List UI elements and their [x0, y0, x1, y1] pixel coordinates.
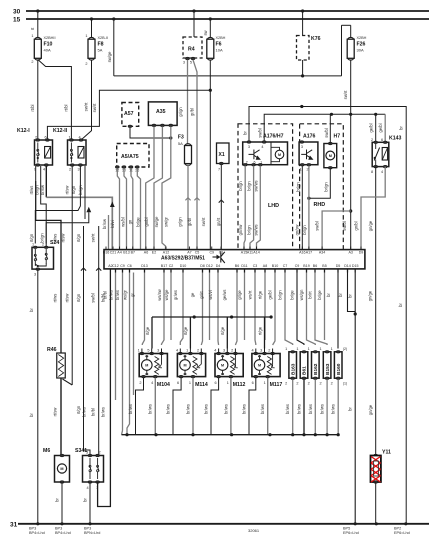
svg-text:br: br [348, 294, 353, 298]
svg-text:sw/ge: sw/ge [154, 216, 159, 228]
svg-text:LHD: LHD [268, 203, 279, 209]
svg-text:A14: A14 [253, 250, 259, 254]
svg-text:32061: 32061 [248, 528, 260, 533]
svg-text:(2): (2) [343, 347, 347, 351]
svg-text:br/gn: br/gn [78, 185, 83, 195]
svg-text:gr: gr [130, 293, 135, 297]
svg-text:6: 6 [177, 381, 179, 385]
svg-text:B17: B17 [161, 264, 167, 268]
svg-text:br/ws: br/ws [109, 290, 114, 300]
svg-text:ws/gn: ws/gn [299, 289, 304, 301]
svg-text:1: 1 [31, 34, 33, 38]
svg-text:15: 15 [13, 17, 21, 24]
svg-text:M: M [258, 364, 261, 368]
svg-text:br/ws: br/ws [204, 404, 209, 414]
svg-text:sw/rt: sw/rt [343, 90, 348, 100]
svg-text:2: 2 [371, 138, 373, 142]
svg-text:br/gn: br/gn [246, 181, 251, 191]
svg-text:sw/rt: sw/rt [92, 103, 97, 113]
svg-text:7: 7 [218, 168, 220, 172]
svg-text:2: 2 [331, 382, 333, 386]
svg-text:A17: A17 [306, 250, 312, 254]
svg-text:rt/gn: rt/gn [71, 185, 76, 194]
svg-text:2: 2 [246, 160, 248, 164]
svg-text:A63/S292/B37/M51: A63/S292/B37/M51 [161, 255, 205, 261]
svg-text:4: 4 [87, 486, 89, 490]
svg-text:4: 4 [151, 381, 153, 385]
svg-text:B61: B61 [302, 366, 308, 375]
svg-text:X2BHII: X2BHII [44, 36, 56, 40]
svg-text:rt/gn: rt/gn [76, 233, 81, 242]
svg-text:K12-I: K12-I [17, 128, 30, 134]
svg-text:bl/vi: bl/vi [110, 220, 115, 227]
svg-text:2: 2 [139, 381, 141, 385]
svg-text:A16: A16 [299, 250, 305, 254]
svg-text:D9: D9 [359, 250, 364, 254]
svg-text:H7: H7 [334, 134, 341, 140]
svg-text:1: 1 [85, 34, 87, 38]
svg-text:RHD: RHD [314, 202, 326, 208]
svg-text:1: 1 [260, 160, 262, 164]
svg-text:A12: A12 [163, 250, 169, 254]
svg-text:31: 31 [10, 522, 18, 529]
svg-text:K12-II: K12-II [53, 128, 68, 134]
svg-text:A176/H7: A176/H7 [263, 134, 284, 140]
svg-text:B6: B6 [235, 264, 239, 268]
svg-text:sw/bl: sw/bl [258, 128, 263, 138]
svg-text:br/ws: br/ws [331, 404, 336, 414]
svg-text:BP4=Lhd: BP4=Lhd [29, 531, 45, 535]
svg-text:E2: E2 [152, 250, 156, 254]
svg-text:gn/bl: gn/bl [354, 221, 359, 230]
svg-text:br: br [399, 126, 404, 130]
svg-text:rt/gn: rt/gn [76, 293, 81, 302]
svg-text:rt/ge: rt/ge [220, 326, 225, 335]
svg-text:3: 3 [301, 145, 303, 149]
svg-text:sw/ws: sw/ws [254, 180, 259, 191]
svg-text:6: 6 [214, 381, 216, 385]
svg-text:br/ws: br/ws [320, 404, 325, 414]
svg-text:ge: ge [190, 292, 195, 297]
svg-text:30: 30 [13, 9, 21, 16]
svg-text:br: br [83, 498, 88, 502]
svg-text:sw/rt: sw/rt [84, 102, 89, 112]
svg-text:br/ws: br/ws [166, 404, 171, 414]
svg-text:5: 5 [147, 349, 149, 353]
svg-text:4: 4 [43, 168, 45, 172]
svg-text:X2BH: X2BH [216, 36, 226, 40]
svg-text:br/ws: br/ws [186, 404, 191, 414]
svg-text:gn/ge: gn/ge [368, 220, 373, 231]
svg-text:D8: D8 [200, 264, 205, 268]
svg-text:1: 1 [308, 347, 310, 351]
svg-text:sw/gr: sw/gr [164, 216, 169, 227]
svg-text:C3: C3 [253, 264, 258, 268]
svg-text:sw/ge: sw/ge [107, 51, 112, 63]
svg-text:br/ws: br/ws [297, 404, 302, 414]
svg-text:5: 5 [190, 61, 192, 65]
svg-text:3: 3 [183, 61, 185, 65]
svg-text:ge/bl: ge/bl [268, 290, 273, 299]
svg-text:3: 3 [78, 168, 80, 172]
svg-text:ws/sw: ws/sw [157, 289, 162, 300]
svg-text:rt/bl: rt/bl [30, 104, 35, 111]
svg-text:EP6=Lhd: EP6=Lhd [394, 531, 410, 535]
svg-text:gr/bl: gr/bl [187, 218, 192, 226]
svg-text:2: 2 [268, 349, 270, 353]
svg-text:1: 1 [319, 347, 321, 351]
svg-text:sw/rt: sw/rt [91, 233, 96, 243]
svg-text:br/rt: br/rt [308, 290, 313, 298]
svg-text:br/gn: br/gn [40, 233, 45, 243]
svg-text:3: 3 [248, 145, 250, 149]
svg-text:EP6=Lhd: EP6=Lhd [343, 531, 359, 535]
svg-text:3: 3 [157, 349, 159, 353]
svg-text:Y11: Y11 [382, 450, 391, 456]
svg-text:A4: A4 [117, 250, 121, 254]
svg-text:2: 2 [308, 382, 310, 386]
svg-text:br/bl: br/bl [91, 408, 96, 416]
svg-text:30A: 30A [357, 48, 364, 53]
svg-text:sw/bl: sw/bl [342, 221, 347, 231]
svg-text:A6: A6 [144, 250, 148, 254]
svg-text:B7: B7 [131, 250, 135, 254]
svg-text:C2: C2 [169, 264, 174, 268]
svg-text:sw/bl: sw/bl [324, 128, 329, 138]
svg-text:rt/gn: rt/gn [29, 233, 34, 242]
svg-text:br/bl: br/bl [103, 291, 108, 299]
svg-text:40A: 40A [44, 48, 51, 53]
svg-text:A7: A7 [187, 250, 191, 254]
svg-text:br/sw: br/sw [102, 219, 107, 229]
svg-text:rt/gn: rt/gn [76, 405, 81, 414]
svg-text:BPN=Lhd: BPN=Lhd [84, 531, 100, 535]
svg-text:A57: A57 [124, 111, 134, 117]
svg-text:br/ws: br/ws [101, 407, 106, 417]
svg-text:br: br [55, 498, 60, 502]
svg-text:X2B-II: X2B-II [98, 36, 109, 40]
svg-text:br/gn: br/gn [238, 181, 243, 191]
svg-text:2: 2 [99, 451, 101, 455]
svg-text:sw/ws: sw/ws [254, 224, 259, 235]
svg-text:rt/ge: rt/ge [183, 326, 188, 335]
svg-text:B19: B19 [303, 264, 309, 268]
svg-text:4: 4 [261, 145, 263, 149]
svg-text:1: 1 [285, 347, 287, 351]
svg-text:D11: D11 [241, 264, 247, 268]
svg-text:C5: C5 [195, 250, 200, 254]
svg-text:B162: B162 [313, 363, 319, 375]
svg-text:2: 2 [231, 349, 233, 353]
svg-text:br: br [29, 413, 34, 417]
svg-text:rt/ge: rt/ge [258, 290, 263, 299]
svg-text:3: 3 [34, 273, 36, 277]
svg-text:br/ge: br/ge [290, 290, 295, 300]
svg-text:br/gn: br/gn [295, 182, 300, 192]
svg-text:6: 6 [381, 138, 383, 142]
svg-text:R4: R4 [188, 47, 195, 53]
svg-text:br/ge: br/ge [317, 290, 322, 300]
svg-text:br/ge: br/ge [136, 217, 141, 227]
svg-text:br: br [398, 303, 403, 307]
svg-text:M6: M6 [43, 448, 50, 454]
svg-text:D5: D5 [336, 264, 341, 268]
svg-text:br: br [338, 293, 343, 297]
svg-text:br/gn: br/gn [302, 225, 307, 235]
svg-text:br/gn: br/gn [323, 182, 328, 192]
svg-text:1: 1 [296, 347, 298, 351]
svg-text:X2BH: X2BH [357, 36, 367, 40]
svg-text:ge/bl: ge/bl [369, 123, 374, 132]
svg-text:D16: D16 [103, 250, 110, 254]
svg-text:C6: C6 [127, 264, 132, 268]
svg-text:br/ws: br/ws [128, 404, 133, 414]
svg-text:6: 6 [252, 381, 254, 385]
svg-text:rt/ge: rt/ge [145, 326, 150, 335]
svg-text:gn/ge: gn/ge [368, 404, 373, 415]
svg-text:4: 4 [176, 349, 178, 353]
svg-text:K76: K76 [311, 36, 321, 42]
svg-text:M: M [329, 154, 332, 158]
svg-text:gr/ge: gr/ge [237, 290, 242, 300]
svg-text:A11: A11 [247, 250, 253, 254]
svg-text:br/ws: br/ws [242, 404, 247, 414]
svg-text:rt/sw: rt/sw [65, 186, 70, 195]
svg-text:M117: M117 [270, 382, 283, 388]
svg-text:D14: D14 [344, 264, 351, 268]
svg-text:B153: B153 [325, 363, 331, 375]
svg-text:C9: C9 [120, 264, 125, 268]
svg-text:br/ws: br/ws [115, 290, 120, 300]
svg-text:rt/ws: rt/ws [29, 186, 34, 195]
svg-text:4: 4 [251, 349, 253, 353]
svg-text:M: M [60, 467, 63, 471]
svg-text:gn/bl: gn/bl [144, 217, 149, 226]
svg-text:ws/vi: ws/vi [208, 290, 213, 299]
svg-text:A3: A3 [348, 250, 352, 254]
svg-text:A8: A8 [263, 264, 267, 268]
svg-text:M: M [183, 364, 186, 368]
svg-text:C21: C21 [110, 250, 117, 254]
svg-text:gr/gn: gr/gn [178, 107, 183, 117]
svg-text:br/gn: br/gn [246, 225, 251, 235]
svg-text:R46: R46 [47, 347, 57, 353]
svg-text:1: 1 [138, 349, 140, 353]
svg-text:1: 1 [227, 381, 229, 385]
svg-text:4: 4 [381, 170, 383, 174]
svg-text:gr/rt: gr/rt [199, 290, 204, 298]
svg-text:sw/rt: sw/rt [201, 217, 206, 227]
svg-text:5A: 5A [178, 141, 183, 146]
svg-text:rt/sw: rt/sw [65, 294, 70, 303]
svg-text:K143: K143 [389, 136, 402, 142]
svg-text:C12: C12 [112, 264, 119, 268]
svg-text:br/ws: br/ws [260, 404, 265, 414]
svg-text:X1: X1 [219, 152, 225, 158]
svg-text:1: 1 [264, 381, 266, 385]
svg-text:rt/sw: rt/sw [53, 408, 58, 417]
svg-text:br/ws: br/ws [223, 404, 228, 414]
svg-text:M: M [145, 364, 148, 368]
svg-text:2: 2 [296, 382, 298, 386]
svg-text:br: br [348, 407, 353, 411]
svg-text:sw/bl: sw/bl [91, 293, 96, 303]
svg-text:B6: B6 [313, 264, 317, 268]
svg-text:br: br [326, 293, 331, 297]
svg-text:8: 8 [371, 170, 373, 174]
svg-text:rt/bl: rt/bl [64, 104, 69, 111]
svg-text:BP4=Lhd: BP4=Lhd [55, 531, 71, 535]
svg-text:4: 4 [214, 349, 216, 353]
svg-text:5A: 5A [98, 48, 103, 53]
svg-text:ge/bl: ge/bl [378, 123, 383, 132]
svg-text:sw/bl: sw/bl [315, 221, 320, 231]
svg-text:gr/gn: gr/gn [178, 217, 183, 227]
svg-text:B160: B160 [336, 363, 342, 375]
svg-text:gr/ws: gr/ws [173, 290, 178, 300]
svg-text:br/ws: br/ws [148, 404, 153, 414]
svg-text:6: 6 [254, 160, 256, 164]
svg-text:gr/bl: gr/bl [190, 108, 195, 116]
svg-text:A5/A75: A5/A75 [121, 154, 139, 160]
svg-text:br/ws: br/ws [285, 404, 290, 414]
svg-text:D15: D15 [352, 264, 359, 268]
svg-text:br: br [243, 131, 248, 135]
svg-text:M: M [278, 153, 281, 157]
svg-text:ws/ge: ws/ge [164, 289, 169, 301]
svg-text:ws/gr: ws/gr [122, 289, 127, 300]
svg-text:gn: gn [128, 219, 133, 224]
svg-text:B13: B13 [123, 250, 129, 254]
svg-text:br/ws: br/ws [82, 407, 87, 417]
svg-text:2: 2 [319, 382, 321, 386]
svg-text:C1: C1 [219, 250, 224, 254]
svg-text:ws/rt: ws/rt [248, 290, 253, 300]
svg-text:B10: B10 [272, 264, 278, 268]
svg-text:C9: C9 [295, 264, 300, 268]
svg-text:2: 2 [85, 62, 87, 66]
svg-text:D4: D4 [216, 264, 221, 268]
svg-text:br/ws: br/ws [308, 404, 313, 414]
svg-text:D10: D10 [180, 264, 187, 268]
svg-text:M104: M104 [157, 382, 170, 388]
svg-text:gn/sw: gn/sw [295, 225, 300, 236]
svg-text:ge/ws: ge/ws [222, 290, 227, 301]
svg-text:C7: C7 [283, 264, 288, 268]
svg-text:A35: A35 [156, 109, 166, 115]
svg-text:(1): (1) [343, 382, 347, 386]
svg-text:2: 2 [69, 168, 71, 172]
svg-text:C9: C9 [209, 250, 214, 254]
svg-text:A34: A34 [319, 250, 325, 254]
svg-text:B5: B5 [322, 264, 326, 268]
svg-text:2: 2 [285, 382, 287, 386]
svg-text:rt/ge: rt/ge [258, 326, 263, 335]
svg-text:rt/ws: rt/ws [53, 234, 58, 243]
svg-text:F3: F3 [178, 135, 184, 141]
svg-text:br: br [29, 308, 34, 312]
svg-text:A176: A176 [303, 134, 316, 140]
svg-text:sw: sw [203, 30, 208, 35]
svg-text:2: 2 [197, 349, 199, 353]
svg-text:M: M [221, 364, 224, 368]
svg-text:gn/ge: gn/ge [368, 290, 373, 301]
svg-text:D12: D12 [206, 264, 213, 268]
svg-text:10A: 10A [216, 48, 223, 53]
svg-text:br/gn: br/gn [278, 290, 283, 300]
svg-text:ws/bl: ws/bl [121, 217, 126, 227]
svg-text:1: 1 [189, 381, 191, 385]
svg-text:rt/sw: rt/sw [61, 234, 66, 243]
svg-text:2: 2 [31, 60, 33, 64]
svg-text:1: 1 [331, 347, 333, 351]
svg-text:D13: D13 [141, 264, 148, 268]
svg-text:3: 3 [86, 451, 88, 455]
svg-text:B163: B163 [290, 363, 296, 375]
svg-text:M114: M114 [195, 382, 208, 388]
svg-text:rt/ws: rt/ws [53, 294, 58, 303]
svg-text:3: 3 [223, 349, 225, 353]
svg-text:gn/rt: gn/rt [216, 217, 221, 226]
svg-text:1: 1 [300, 168, 302, 172]
svg-text:3: 3 [260, 349, 262, 353]
svg-text:gn/sw: gn/sw [238, 225, 243, 236]
svg-text:M112: M112 [233, 382, 246, 388]
svg-text:1: 1 [186, 349, 188, 353]
